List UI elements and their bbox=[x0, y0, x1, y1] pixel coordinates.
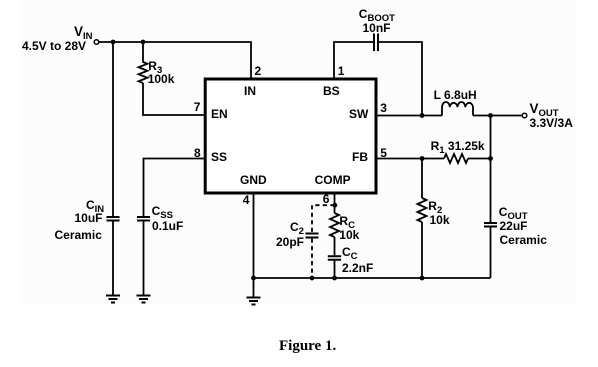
caption Figure 1 bbox=[279, 339, 336, 354]
resistor R2 bbox=[418, 198, 427, 222]
wire R2 top bbox=[421, 159, 423, 199]
label CSS value bbox=[152, 220, 183, 232]
ground below CIN bbox=[106, 296, 120, 303]
wire SW pin3 bbox=[375, 115, 442, 117]
label R2 value bbox=[430, 214, 450, 226]
node junction FB-R2 bbox=[420, 156, 425, 161]
pin name EN bbox=[211, 108, 228, 120]
label CC value bbox=[342, 262, 373, 274]
label VIN bbox=[74, 25, 93, 39]
wire CSS to ground bbox=[143, 222, 145, 296]
resistor R3 bbox=[139, 42, 148, 83]
terminal VIN circle bbox=[94, 40, 99, 45]
capacitor C2 bbox=[306, 234, 319, 238]
resistor RC bbox=[330, 213, 339, 237]
wire L to VOUT bbox=[473, 115, 522, 117]
node junction R2 rail bbox=[420, 276, 425, 281]
node junction GND rail bbox=[251, 276, 256, 281]
pin name BS bbox=[323, 85, 340, 97]
label CSS bbox=[152, 205, 173, 218]
wire SS pin8 to CSS bbox=[144, 159, 207, 217]
label VOUT range bbox=[530, 117, 573, 129]
wire COMP pin6 bbox=[334, 193, 336, 213]
label RC value bbox=[339, 229, 359, 241]
ground below CSS bbox=[137, 296, 151, 303]
node junction R1-COUT bbox=[488, 156, 493, 161]
node junction SW-CBOOT bbox=[420, 113, 425, 118]
label pin 7 bbox=[194, 101, 201, 113]
wire dashed C2 to rail bbox=[311, 239, 313, 279]
node junction CC rail bbox=[332, 276, 337, 281]
label RC bbox=[339, 215, 355, 228]
label CIN bbox=[86, 199, 104, 212]
wire COUT to bottom rail bbox=[490, 228, 492, 279]
resistor R1 bbox=[444, 154, 468, 163]
wire R1 to COUT node bbox=[468, 158, 491, 160]
label COUT value bbox=[500, 220, 528, 232]
wire R2 to bottom rail bbox=[421, 222, 423, 278]
label pin 5 bbox=[380, 147, 387, 159]
pin name GND bbox=[240, 174, 267, 186]
wire VIN to pin2 IN bbox=[99, 42, 251, 79]
node junction VIN-R3 bbox=[141, 40, 146, 45]
node junction VIN-CIN bbox=[111, 40, 116, 45]
wire BS pin1 to CBOOT bbox=[334, 42, 373, 79]
label CBOOT bbox=[359, 8, 395, 21]
wire CBOOT to SW node bbox=[379, 42, 422, 116]
label pin 3 bbox=[380, 102, 387, 114]
capacitor CC bbox=[328, 256, 341, 259]
wire CIN branch bbox=[112, 42, 114, 216]
node junction COMP-C2 bbox=[332, 203, 337, 208]
label R3 value bbox=[148, 73, 175, 85]
node junction C2 rail bbox=[310, 276, 315, 281]
label pin 2 bbox=[255, 65, 262, 77]
label C2 value bbox=[276, 236, 304, 248]
pin name IN bbox=[244, 85, 256, 97]
label R2 bbox=[428, 200, 442, 213]
wire FB pin5 bbox=[375, 158, 444, 160]
label C2 bbox=[290, 221, 304, 234]
pin name SS bbox=[211, 151, 227, 163]
wire R3 to EN pin7 bbox=[143, 83, 206, 115]
capacitor COUT bbox=[484, 223, 497, 227]
label CIN ceramic bbox=[55, 229, 102, 241]
label CIN value bbox=[75, 212, 103, 224]
label pin 4 bbox=[243, 194, 250, 206]
wire GND pin4 bbox=[253, 193, 255, 297]
pin name SW bbox=[349, 108, 368, 120]
capacitor CSS bbox=[137, 217, 150, 221]
label pin 1 bbox=[338, 65, 345, 77]
label CC bbox=[342, 246, 358, 259]
label COUT bbox=[499, 206, 528, 219]
wire bottom rail bbox=[254, 277, 491, 279]
inductor L bbox=[442, 102, 473, 116]
wire COUT branch bbox=[490, 116, 492, 223]
capacitor CIN bbox=[107, 217, 120, 221]
IC U1 body bbox=[205, 79, 376, 193]
pin name COMP bbox=[315, 174, 351, 186]
label pin 6 bbox=[323, 193, 330, 205]
wire dashed C2 branch bbox=[312, 205, 335, 232]
wire CIN to ground bbox=[112, 222, 114, 296]
label VOUT bbox=[530, 102, 559, 116]
pin name FB bbox=[352, 151, 368, 163]
label pin 8 bbox=[194, 147, 201, 159]
label CBOOT value bbox=[363, 22, 391, 34]
node junction VOUT-COUT bbox=[488, 113, 493, 118]
label COUT ceramic bbox=[500, 234, 547, 246]
wire CC to bottom rail bbox=[334, 261, 336, 278]
ground below pin4 bbox=[247, 298, 261, 305]
wire RC to CC bbox=[334, 237, 336, 255]
capacitor CBOOT bbox=[374, 34, 378, 52]
label R3 bbox=[148, 60, 162, 73]
terminal VOUT circle bbox=[522, 113, 527, 118]
label R1 bbox=[431, 140, 485, 153]
label L bbox=[434, 89, 477, 101]
label VIN range bbox=[22, 40, 86, 52]
